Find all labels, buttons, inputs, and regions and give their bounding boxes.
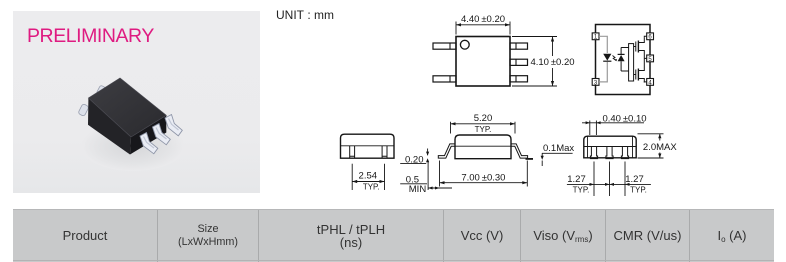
svg-text:TYP.: TYP. — [573, 186, 590, 195]
svg-text:TYP.: TYP. — [630, 186, 647, 195]
svg-text:4.40 ±0.20: 4.40 ±0.20 — [461, 14, 505, 25]
svg-text:1.27: 1.27 — [567, 174, 586, 185]
svg-text:1.27: 1.27 — [625, 174, 644, 185]
svg-text:TYP.: TYP. — [363, 183, 380, 192]
svg-text:MIN: MIN — [409, 184, 427, 195]
svg-text:2.0MAX: 2.0MAX — [643, 142, 677, 153]
svg-text:4.10 ±0.20: 4.10 ±0.20 — [530, 57, 574, 68]
svg-text:7.00 ±0.30: 7.00 ±0.30 — [461, 172, 505, 183]
svg-text:TYP.: TYP. — [475, 125, 492, 134]
svg-text:2.54: 2.54 — [359, 171, 378, 182]
svg-text:5.20: 5.20 — [474, 113, 493, 124]
svg-text:0.1Max: 0.1Max — [543, 143, 574, 154]
